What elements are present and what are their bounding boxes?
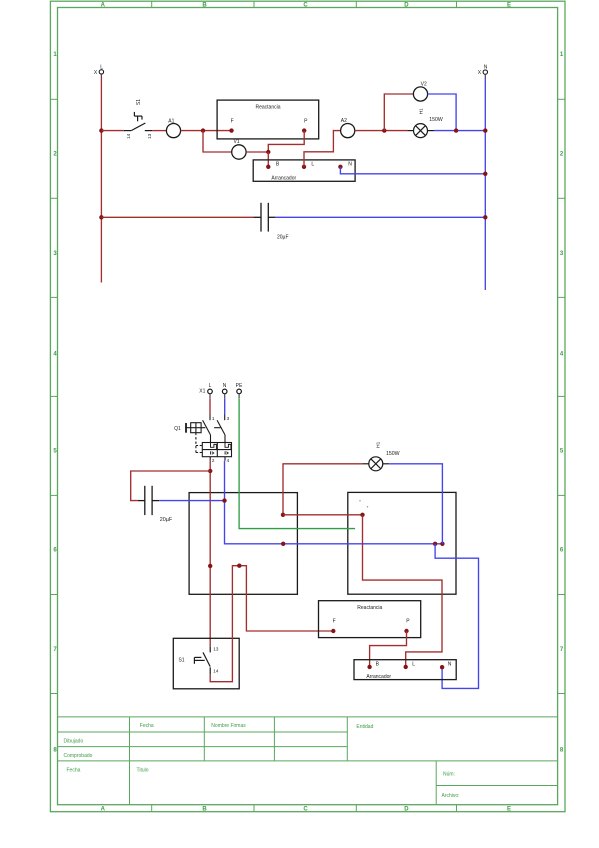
node junction blue lamp corner	[440, 542, 444, 546]
svg-text:B: B	[202, 2, 207, 8]
svg-text:Fecha: Fecha	[140, 723, 154, 729]
wire lamp to N rail (blue)	[434, 130, 485, 132]
stray marks in box 2	[359, 500, 368, 507]
terminal strip X1 L N PE	[199, 383, 243, 398]
svg-text:13: 13	[147, 133, 152, 139]
svg-text:E: E	[507, 2, 511, 8]
pin P dot (bottom)	[404, 629, 408, 633]
svg-text:N: N	[484, 65, 488, 71]
svg-text:Dibujado: Dibujado	[64, 739, 84, 745]
terminal X L (top-left)	[94, 64, 104, 77]
wire S1 to A1	[152, 130, 166, 132]
switch S1 (top)	[124, 112, 152, 131]
svg-text:14: 14	[213, 668, 219, 673]
luminaire box 2	[348, 492, 456, 594]
frame row dividers	[50, 99, 565, 693]
pin N dot (bottom)	[440, 665, 444, 669]
capacitor C1 20uF (top)	[253, 203, 275, 232]
node junction rail-lamp	[483, 128, 487, 132]
pin P dot	[302, 128, 306, 132]
title block texts	[64, 723, 460, 799]
frame row numbers left	[53, 52, 57, 754]
node junction red elbow box2	[360, 513, 364, 517]
pin B dot (bottom)	[367, 665, 371, 669]
starter box Arrancador (top)	[253, 160, 355, 182]
wire node to B pin	[267, 152, 269, 167]
wire L to S1	[101, 130, 123, 132]
svg-text:1: 1	[212, 416, 215, 421]
node junction lamp-red corner	[281, 513, 285, 517]
wire lamp left (red)	[283, 464, 362, 515]
pin B dot	[266, 165, 270, 169]
capacitor C2 20uF (bottom)	[138, 486, 159, 515]
wire red to starter L (red)	[363, 515, 443, 667]
node junction L-S1	[99, 128, 103, 132]
node junction on blue N wire	[281, 542, 285, 546]
node junction A1-V1 branch	[201, 128, 205, 132]
ballast box Reactancia (top)	[217, 100, 319, 139]
node junction blue N branch	[433, 542, 437, 546]
svg-text:Núm:: Núm:	[443, 772, 455, 778]
frame column letters bottom	[101, 806, 511, 812]
svg-text:Archivo:: Archivo:	[442, 793, 460, 799]
wire PE (green)	[239, 398, 355, 528]
wire N rail (blue vertical right)	[484, 78, 486, 291]
svg-text:S1: S1	[136, 99, 142, 105]
wire starter N to rail (blue)	[340, 167, 485, 174]
svg-text:Titulo: Titulo	[137, 768, 149, 774]
wire V2 to N rail (blue)	[428, 94, 457, 131]
wire A2 to lamp H1	[355, 130, 408, 132]
wire N to starter N (blue)	[435, 544, 478, 689]
wire X1 L to Q1 (red)	[209, 398, 211, 414]
svg-text:Arrancador: Arrancador	[366, 674, 391, 680]
svg-text:H1: H1	[375, 441, 381, 447]
wire V1 to node B	[246, 151, 268, 153]
svg-text:V1: V1	[233, 139, 239, 145]
terminal X N (top-right)	[478, 65, 488, 78]
wire branch to V1	[203, 131, 231, 152]
svg-text:Q1: Q1	[174, 426, 181, 432]
pin L dot	[302, 165, 306, 169]
svg-text:Reactancia: Reactancia	[357, 605, 382, 611]
svg-text:N: N	[448, 662, 452, 668]
svg-text:PE: PE	[236, 383, 243, 389]
frame row numbers right	[560, 52, 564, 754]
wire red across box1	[283, 514, 363, 516]
wire S1 pin14 loop up (red)	[210, 566, 333, 682]
breaker Q1	[186, 415, 232, 461]
node junction L-capacitor	[99, 215, 103, 219]
node junction rail-capacitor	[483, 215, 487, 219]
svg-text:D: D	[404, 2, 409, 8]
svg-text:X1: X1	[199, 389, 205, 395]
svg-text:F: F	[231, 118, 234, 124]
svg-text:F: F	[333, 619, 336, 625]
svg-text:D: D	[404, 806, 409, 812]
svg-text:20µF: 20µF	[277, 235, 289, 241]
wire capacitor to N (blue)	[159, 500, 224, 502]
wire P to starter B (red)	[370, 631, 407, 667]
svg-text:2: 2	[212, 458, 215, 463]
svg-text:V2: V2	[421, 81, 427, 87]
terminal V2	[413, 81, 427, 101]
svg-text:L: L	[412, 662, 415, 668]
lamp H1 150W (bottom)	[362, 457, 389, 471]
pin N dot	[338, 165, 342, 169]
wire Q1 pin2 down to S1 pin13 (red)	[209, 461, 211, 647]
title block lines	[58, 717, 558, 805]
node junction rail-starterN	[483, 172, 487, 176]
svg-text:150W: 150W	[429, 117, 443, 123]
node junction V2-lamp	[454, 128, 458, 132]
frame column letters top	[101, 2, 511, 8]
svg-text:150W: 150W	[386, 451, 400, 457]
svg-text:B: B	[202, 806, 207, 812]
svg-text:Entidad: Entidad	[356, 724, 373, 730]
svg-text:14: 14	[126, 133, 131, 139]
svg-text:Nombre Firmas: Nombre Firmas	[211, 723, 246, 729]
switch S1 (bottom)	[194, 647, 210, 675]
svg-text:20µF: 20µF	[160, 517, 173, 523]
wire X1 N to Q1 (blue)	[224, 398, 226, 414]
wire L pin to A2	[304, 131, 341, 167]
svg-text:Arrancador: Arrancador	[271, 176, 296, 182]
svg-text:Fecha: Fecha	[67, 768, 81, 774]
lamp H1 150W (top)	[407, 124, 434, 138]
wire A1 to F	[181, 130, 232, 132]
luminaire box 1	[189, 493, 297, 595]
svg-text:N: N	[223, 383, 227, 389]
pin L dot (bottom)	[404, 665, 408, 669]
node junction V1-P-B	[266, 150, 270, 154]
svg-text:A: A	[101, 2, 106, 8]
wire Q1 pin4 down (blue)	[225, 461, 443, 544]
wire P to node B	[268, 131, 304, 152]
node junction on pin2 wire	[208, 564, 212, 568]
svg-text:E: E	[507, 806, 511, 812]
pin F dot	[229, 128, 233, 132]
svg-text:S1: S1	[178, 657, 184, 663]
ballast box Reactancia (bottom)	[319, 601, 421, 638]
terminal A1	[166, 118, 180, 137]
svg-text:A1: A1	[168, 118, 174, 124]
wire capacitor to N rail (blue)	[275, 216, 485, 218]
node junction pin4-capacitor	[222, 498, 226, 502]
svg-text:4: 4	[227, 458, 230, 463]
wire branch to capacitor (red)	[131, 471, 211, 501]
svg-text:13: 13	[213, 647, 219, 652]
svg-text:N: N	[348, 161, 352, 167]
node junction A2-V2 branch	[382, 128, 386, 132]
svg-text:Reactancia: Reactancia	[255, 104, 280, 110]
node junction loop top	[237, 564, 241, 568]
svg-text:L: L	[100, 64, 103, 70]
svg-text:L: L	[311, 161, 314, 167]
pin F dot (bottom)	[331, 629, 335, 633]
svg-text:L: L	[209, 383, 212, 389]
svg-text:A: A	[101, 806, 106, 812]
wire L to capacitor (red)	[101, 216, 253, 218]
svg-text:Comprobado: Comprobado	[64, 753, 93, 759]
svg-text:A2: A2	[341, 118, 347, 124]
frame column dividers	[152, 1, 457, 812]
svg-text:3: 3	[227, 416, 230, 421]
pushbutton box S1 (bottom)	[173, 638, 239, 689]
svg-text:C: C	[303, 2, 308, 8]
svg-text:H1: H1	[418, 108, 424, 114]
terminal V1	[232, 139, 246, 159]
terminal A2	[341, 118, 355, 138]
wire L rail (red vertical left)	[100, 77, 102, 282]
svg-text:C: C	[303, 806, 308, 812]
starter box Arrancador (bottom)	[354, 660, 456, 680]
wire lamp right (blue)	[389, 464, 442, 544]
wire branch to V2	[384, 94, 413, 131]
node junction pin2-capacitor branch	[208, 469, 212, 473]
